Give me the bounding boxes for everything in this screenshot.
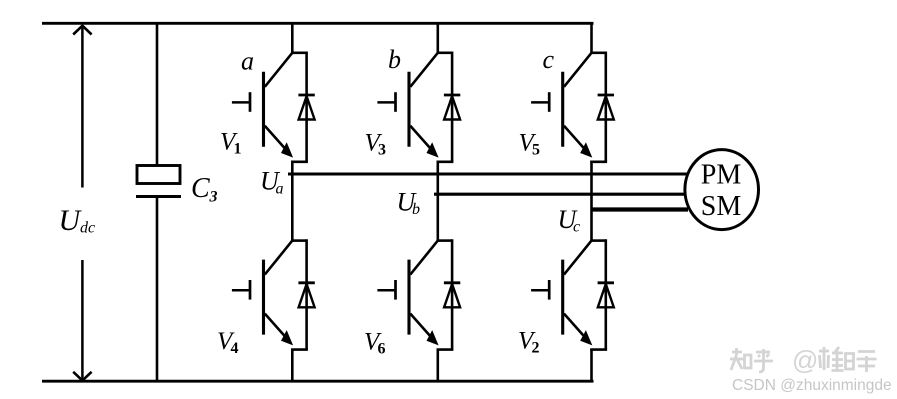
svg-text:SM: SM <box>701 191 742 222</box>
svg-text:a: a <box>241 47 254 76</box>
svg-text:C: C <box>191 173 210 204</box>
svg-text:5: 5 <box>532 142 540 159</box>
svg-text:b: b <box>388 45 401 74</box>
svg-text:dc: dc <box>80 220 95 237</box>
svg-text:6: 6 <box>378 341 386 358</box>
svg-text:a: a <box>276 181 284 198</box>
svg-text:CSDN @zhuxinmingde: CSDN @zhuxinmingde <box>732 377 892 394</box>
svg-text:2: 2 <box>532 340 540 357</box>
svg-text:b: b <box>412 201 420 218</box>
svg-text:c: c <box>573 219 580 236</box>
svg-text:U: U <box>59 204 83 237</box>
svg-text:c: c <box>543 45 555 74</box>
svg-text:3: 3 <box>378 142 386 159</box>
svg-text:@: @ <box>792 345 818 375</box>
svg-text:1: 1 <box>234 141 242 158</box>
svg-text:3: 3 <box>209 189 218 206</box>
svg-text:PM: PM <box>701 160 742 191</box>
svg-text:4: 4 <box>231 340 239 357</box>
